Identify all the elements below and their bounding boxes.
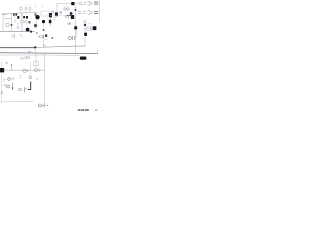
box on vert x36 <box>34 62 39 66</box>
quote marks <box>4 84 5 86</box>
battery cell lines <box>91 27 92 30</box>
relay coil box <box>41 11 49 16</box>
battery outline <box>86 27 93 31</box>
stem x30 <box>29 72 31 76</box>
feed box dark <box>0 68 4 72</box>
main rule B <box>0 52 98 55</box>
label 5w <box>4 80 6 82</box>
stub below junction <box>34 47 36 52</box>
relay blob K3 <box>74 26 77 29</box>
wire x76 vert <box>74 30 76 38</box>
wire top-left stub <box>2 13 8 15</box>
junction blob rule A <box>34 46 36 48</box>
bottom rule <box>0 100 33 103</box>
arrow tick rule A <box>44 45 46 47</box>
transformer T1 secondary <box>49 20 52 23</box>
drop x75.5 <box>75 46 77 53</box>
fuse blob F2 <box>84 33 87 36</box>
label marks x20 y76 <box>20 76 22 78</box>
label 31b <box>14 21 16 23</box>
wire vert x43.5 lower <box>43 38 45 46</box>
tick x22 y36 <box>21 36 23 38</box>
plus F x24.5 y89.5 <box>25 87 27 92</box>
wire top main horizontal <box>2 12 37 14</box>
small circle x18 y27.5 <box>17 26 19 28</box>
tick marks y23 <box>18 24 20 25</box>
bus bar y31.5 <box>0 31 34 33</box>
connector label top <box>79 2 98 6</box>
mark x37 y79 <box>36 78 38 80</box>
labels above lamps <box>20 5 31 7</box>
solenoid bar <box>43 35 45 38</box>
wire vert x43.5 <box>43 23 45 30</box>
junction dot x52 <box>51 37 53 39</box>
label 2 <box>35 5 37 7</box>
label right of T1 <box>54 18 56 20</box>
battery branch wire <box>85 27 91 29</box>
caption text <box>78 109 98 111</box>
dark wire segment <box>67 15 71 17</box>
lamp circle x20 y89.5 <box>19 88 22 91</box>
resistor R2 <box>29 21 31 23</box>
right edge border <box>99 0 101 22</box>
contact blob row 2 <box>23 16 25 18</box>
wire y70 <box>4 69 44 71</box>
svg-text:ou: ou <box>68 21 72 25</box>
arrow mark <box>60 12 62 14</box>
lamp circle x24.5 <box>23 69 26 72</box>
vert x30.5 upper <box>30 62 32 70</box>
junction dot x43 <box>43 29 45 31</box>
wire stub y36 <box>38 36 40 38</box>
contactor blob K2 <box>55 12 58 16</box>
vert x44.5 long <box>44 54 46 104</box>
label near T1 <box>47 14 49 19</box>
label above battery <box>89 23 93 25</box>
dark hook x30.5 <box>28 82 30 90</box>
plus mark x27.8 <box>27 70 29 73</box>
mark x6.5 y63 <box>6 62 8 64</box>
label q <box>65 16 67 18</box>
breaker blob CB2 <box>71 15 74 19</box>
wire to connector top <box>75 3 79 5</box>
capacitor group mid-right <box>69 36 75 39</box>
lamp L3b <box>25 21 27 23</box>
labels above lamps right <box>64 5 69 7</box>
gray blob y52 <box>28 51 31 53</box>
wire rule C to blob <box>45 54 80 56</box>
rule B end tick <box>97 51 99 53</box>
plus x13 y78.5 <box>12 77 14 79</box>
left border bottom block <box>1 62 3 102</box>
arrowhead down x12.5 <box>12 88 14 91</box>
contact blob row 1 <box>17 16 19 19</box>
plus x39.5 y70 <box>38 69 40 71</box>
terminal circles y57 <box>25 57 30 59</box>
meter M2 <box>6 23 9 26</box>
lamp L4 <box>51 11 53 13</box>
lamp L1 <box>20 7 23 13</box>
tick bar x68.5 <box>68 15 70 18</box>
lamp L2 <box>29 7 31 12</box>
dot x47.5 <box>47 105 48 106</box>
transformer T1 leads <box>49 17 51 26</box>
arrow down x12.5 <box>12 83 14 89</box>
lamp L3 <box>21 13 24 32</box>
right bus vertical x75.5 <box>75 6 77 47</box>
battery blob BT1 <box>93 26 96 30</box>
gauge circle x9 y79 <box>8 78 11 81</box>
label squares x13 y35 <box>12 34 21 38</box>
junction blob A <box>35 15 39 19</box>
main rule C <box>0 54 45 56</box>
main rule A <box>0 47 35 49</box>
connector label mid <box>78 11 98 15</box>
wire vert x36.5 <box>36 20 38 25</box>
label above relay box <box>42 6 44 8</box>
main rule A right <box>35 46 85 47</box>
right bus vertical x85 <box>84 21 86 47</box>
wire y15.5 <box>50 15 67 17</box>
label con <box>44 39 47 41</box>
component box U1 <box>3 14 12 31</box>
lamp L6 <box>67 8 69 10</box>
vert x36 <box>35 54 37 67</box>
svg-text:30: 30 <box>20 56 24 60</box>
junction blob bus <box>30 31 32 33</box>
switch S1 <box>13 13 17 15</box>
solenoid blob <box>45 34 47 37</box>
transformer T1 primary <box>49 13 52 17</box>
breaker blob CB1 <box>70 12 73 15</box>
label 31 <box>14 16 16 18</box>
junction dot x85 <box>84 24 86 26</box>
lamp circle x36 y70 <box>35 69 38 72</box>
plus x44 y105.5 <box>42 104 45 107</box>
lamp L5 <box>64 8 66 10</box>
lamp circle x30 y77.5 <box>29 76 32 79</box>
solenoid circle <box>40 35 43 38</box>
fuse F1 <box>25 7 27 13</box>
outlet mark left <box>3 15 6 16</box>
terminal blob top <box>71 2 74 5</box>
valve star V1 <box>34 24 37 27</box>
mark z x1.5 y92.5 <box>1 92 3 94</box>
dot x37 y33 <box>36 32 38 34</box>
contact K1 <box>35 13 37 15</box>
terminal mark x85 top <box>84 21 87 22</box>
stub with arrow x11.5 <box>11 64 13 70</box>
arrowhead x11.5 <box>11 64 13 66</box>
transistor blob Q1 <box>42 20 45 23</box>
terminal dot <box>11 24 13 26</box>
wire stub x20 <box>21 15 23 17</box>
wire top box <box>57 4 71 13</box>
junction dot x75 <box>75 9 77 11</box>
connector blob right <box>80 57 87 60</box>
lamp circle x8 y86.5 <box>7 85 10 88</box>
lamp circle x40 y105.5 <box>39 104 42 107</box>
contact blob row 3 <box>26 16 28 19</box>
motor blob M1 <box>26 28 30 32</box>
